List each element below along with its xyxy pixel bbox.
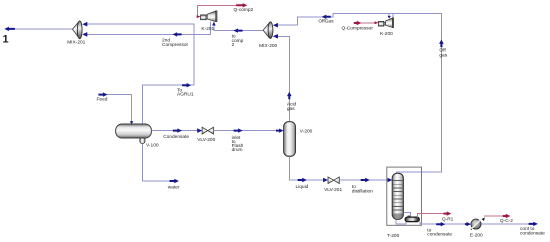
- node: K-201 suction arrow: [212, 22, 216, 26]
- svg-text:T-200: T-200: [387, 233, 400, 239]
- node: MIX-201 upper inlet arrow: [82, 22, 87, 27]
- svg-text:gas: gas: [439, 54, 447, 59]
- node: T-200 feed arrow: [388, 178, 393, 183]
- svg-text:MIX-201: MIX-201: [67, 40, 85, 46]
- svg-text:Liquid: Liquid: [296, 184, 309, 190]
- svg-text:condensate: condensate: [520, 231, 545, 237]
- svg-text:1: 1: [3, 34, 9, 46]
- stream to condensate : reboiler -> right through E-200 (dangling): [420, 222, 545, 238]
- svg-text:VLV-200: VLV-200: [197, 137, 215, 143]
- svg-text:drum: drum: [232, 147, 243, 153]
- svg-text:distillation: distillation: [352, 189, 373, 195]
- stream Liquid : V-200 bottom -> down -> right -> VLV-201: [289, 156, 323, 190]
- valve VLV-201: [324, 177, 342, 193]
- cooler E-200: [465, 219, 483, 239]
- svg-text:V-100: V-100: [146, 143, 159, 149]
- node: VLV-201 inlet arrow: [323, 178, 328, 183]
- energy stream Q-R1 (red, from reboiler, dangling): [417, 211, 453, 222]
- svg-text:E-200: E-200: [470, 233, 483, 239]
- node: MIX-200 upper inlet arrow: [273, 23, 278, 28]
- energy stream Q-Compressor (red, into K-200 shaft): [342, 21, 379, 32]
- stream Condensate : V-100 -> VLV-200: [151, 128, 201, 140]
- svg-text:water: water: [168, 185, 180, 191]
- stream water : V-100 boot -> down -> right (dangling): [142, 144, 180, 191]
- svg-text:Q-R1: Q-R1: [442, 216, 454, 222]
- svg-text:V-200: V-200: [300, 128, 313, 134]
- node: VLV-200 inlet arrow: [197, 128, 202, 133]
- stream Feed -> V-100 top: [97, 92, 134, 124]
- column tower T-200 (trayed): [387, 173, 403, 239]
- separator V-100 (horizontal drum with boot): [116, 124, 159, 149]
- stream to distillation : VLV-201 -> T-200 feed: [339, 178, 388, 195]
- svg-text:MIX-200: MIX-200: [259, 43, 277, 49]
- flash drum V-200 (vertical vessel): [284, 122, 313, 157]
- compressor K-201: [201, 11, 217, 32]
- wire: reboiler vapour return to column: [404, 213, 411, 218]
- node: V-200 inlet arrow: [276, 129, 284, 133]
- wire: T-200 bottoms to reboiler: [396, 220, 406, 224]
- svg-text:VLV-201: VLV-201: [324, 187, 342, 193]
- compressor K-200: [378, 18, 393, 37]
- svg-text:Feed: Feed: [97, 97, 108, 103]
- node: MIX-200 lower inlet arrow: [273, 34, 278, 39]
- svg-text:Condensate: Condensate: [163, 134, 189, 140]
- svg-text:Compressor: Compressor: [162, 42, 189, 48]
- svg-text:OffGas: OffGas: [318, 18, 334, 24]
- svg-text:Q-Compressor: Q-Compressor: [342, 26, 374, 32]
- node: MIX-201 lower inlet arrow: [82, 32, 87, 37]
- stream to comp 2 : MIX-200 apex -> left -> up -> K-201 suction: [214, 25, 263, 48]
- stream 1 (product of MIX-201, dangling to left): [3, 27, 73, 46]
- svg-text:Q-C-2: Q-C-2: [500, 218, 513, 224]
- reboiler (kettle): [405, 216, 419, 222]
- stream To AGRU1 : V-100 top -> up -> right -> up -> MIX-201 upper inlet: [86, 24, 194, 124]
- stream Acid gas : V-200 top -> up -> left -> MIX-200 lower inlet: [278, 36, 297, 121]
- valve VLV-200: [197, 127, 215, 143]
- stream 2nd Compressor : K-201 discharge -> down -> left -> MIX-201 lower inlet: [86, 21, 210, 48]
- svg-text:condensate: condensate: [427, 232, 452, 238]
- energy stream Q-comp2 (red, into K-201 shaft): [197, 3, 254, 18]
- mixer MIX-201: [67, 21, 85, 46]
- svg-text:Q-comp2: Q-comp2: [234, 7, 254, 13]
- column sub-flowsheet box T-200: [387, 167, 422, 225]
- svg-text:K-201: K-201: [201, 26, 214, 32]
- stream inlet to Flash drum : VLV-200 -> V-200: [214, 128, 278, 153]
- energy stream Q-C-2 (red, from E-200, dangling): [482, 214, 514, 224]
- stream Off gas : T-200 overhead -> right -> up -> left into K-200 suction: [388, 14, 448, 175]
- svg-text:K-200: K-200: [380, 31, 393, 37]
- stream OffGas : K-200 discharge -> left -> down -> left -> MIX-200 upper inlet: [278, 14, 391, 26]
- svg-text:AGRU1: AGRU1: [177, 91, 194, 97]
- svg-text:gas: gas: [287, 107, 295, 112]
- svg-text:2: 2: [232, 42, 235, 48]
- mixer MIX-200: [259, 22, 277, 49]
